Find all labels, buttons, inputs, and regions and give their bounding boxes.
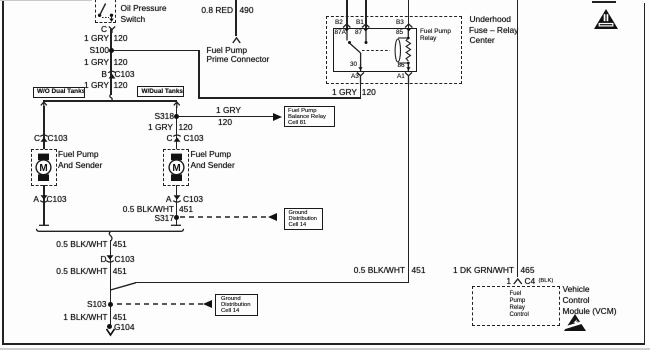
svg-text:M: M xyxy=(40,163,48,174)
svg-text:M: M xyxy=(172,163,180,174)
